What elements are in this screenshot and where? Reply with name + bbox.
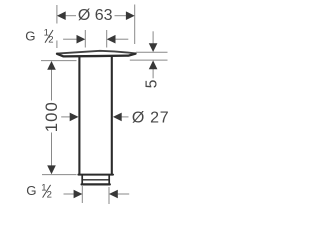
- svg-text:100: 100: [42, 101, 61, 132]
- svg-text:Ø 63: Ø 63: [78, 7, 113, 24]
- svg-text:5: 5: [143, 80, 160, 89]
- svg-text:G: G: [26, 183, 36, 198]
- svg-text:2: 2: [47, 190, 52, 201]
- svg-text:Ø 27: Ø 27: [132, 110, 170, 127]
- svg-text:G: G: [25, 28, 35, 43]
